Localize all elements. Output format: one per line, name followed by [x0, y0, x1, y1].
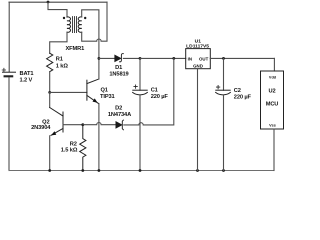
MCU U2 box [261, 71, 284, 129]
svg-text:C2: C2 [234, 88, 241, 94]
svg-text:Vdd: Vdd [269, 76, 277, 80]
junction dot Q2 emitter at rail [48, 169, 51, 172]
svg-text:GND: GND [193, 64, 203, 69]
svg-text:IN: IN [188, 56, 192, 61]
wire Vdd lead to U2 [273, 58, 275, 71]
svg-text:Vss: Vss [269, 124, 276, 128]
capacitor C1 [133, 58, 148, 170]
node R2 top junction dot [81, 123, 84, 126]
wire D1 anode [99, 57, 115, 59]
junction dot C2 at rail [222, 169, 225, 172]
svg-text:Q1: Q1 [101, 88, 108, 94]
node base junction dot [48, 91, 51, 94]
battery BAT1 [2, 68, 15, 170]
node battery+ / primary junction dot on top rail [47, 1, 50, 4]
wire primary top jog [48, 2, 67, 17]
transformer XFMR1 core [73, 17, 77, 33]
svg-text:MCU: MCU [266, 102, 279, 108]
regulator U1 box [186, 49, 211, 69]
svg-text:1N5819: 1N5819 [109, 71, 128, 77]
junction dot R2 at rail [81, 169, 84, 172]
wire R2 node to D2 anode with hop [83, 122, 116, 124]
svg-text:2N3904: 2N3904 [31, 125, 51, 131]
svg-text:1 kΩ: 1 kΩ [56, 64, 69, 70]
wire Q1 emitter [98, 104, 100, 171]
svg-text:BAT1: BAT1 [20, 71, 34, 77]
transistor Q2 [50, 108, 63, 136]
wire Q1 collector [98, 58, 100, 79]
svg-text:D2: D2 [115, 106, 122, 112]
wire Q2 base to R2 node [63, 124, 83, 126]
resistor R2 [80, 125, 86, 171]
svg-text:C1: C1 [151, 88, 158, 94]
wire C1 node to U1 IN [140, 57, 186, 59]
node C2 top junction dot [222, 57, 225, 60]
transformer XFMR1 secondary winding [78, 17, 82, 32]
svg-text:1.5 kΩ: 1.5 kΩ [61, 147, 78, 153]
wire secondary top to D1 node [82, 10, 99, 59]
svg-text:U2: U2 [268, 89, 275, 95]
junction dot C1 at rail [139, 169, 142, 172]
node C1 top junction dot [139, 57, 142, 60]
transistor Q1 [87, 79, 99, 104]
node D1 anode junction dot [98, 57, 101, 60]
svg-text:R1: R1 [56, 57, 63, 63]
junction dot U1 GND at rail [196, 169, 199, 172]
transformer XFMR1 primary phase dot [63, 17, 65, 19]
wire bottom rail (ground return) [9, 170, 274, 172]
svg-text:OUT: OUT [199, 56, 209, 61]
wire U1 OUT net [210, 57, 274, 59]
diode D1 (schottky) [115, 54, 124, 62]
svg-text:1N4734A: 1N4734A [108, 112, 131, 118]
wire U1 GND lead [197, 69, 199, 171]
transformer XFMR1 primary winding [67, 17, 71, 32]
wire D1 cathode to C1 node [123, 57, 140, 59]
diode D2 (zener) [116, 120, 124, 130]
wire Vss lead to ground rail [273, 129, 275, 171]
svg-text:1.2 V: 1.2 V [20, 77, 33, 83]
wire R1 bottom to base node [49, 72, 51, 93]
wire battery positive lead [8, 2, 10, 72]
svg-text:220 µF: 220 µF [234, 94, 252, 100]
svg-text:LD1117V5: LD1117V5 [186, 43, 209, 49]
node zener sense junction dot [172, 57, 175, 60]
junction dot Q1 emitter at rail [98, 169, 101, 172]
svg-text:TIP31: TIP31 [100, 94, 115, 100]
svg-text:XFMR1: XFMR1 [65, 46, 84, 52]
wire Q2 collector stub [49, 92, 51, 107]
capacitor C2 [216, 58, 231, 170]
wire Q1 base [50, 91, 87, 93]
transformer XFMR1 secondary phase dot [84, 17, 86, 19]
svg-text:220 µF: 220 µF [151, 94, 169, 100]
wire secondary bottom to top rail with hop [82, 2, 107, 41]
resistor R1 [47, 53, 53, 71]
svg-text:D1: D1 [115, 65, 122, 71]
wire Q2 emitter [49, 136, 51, 171]
wire primary bottom to R1 top [50, 32, 67, 53]
wire D2 cathode to sense line with hop over C1 lead [124, 58, 174, 125]
wire top rail (battery + to secondary bottom) [9, 1, 107, 3]
